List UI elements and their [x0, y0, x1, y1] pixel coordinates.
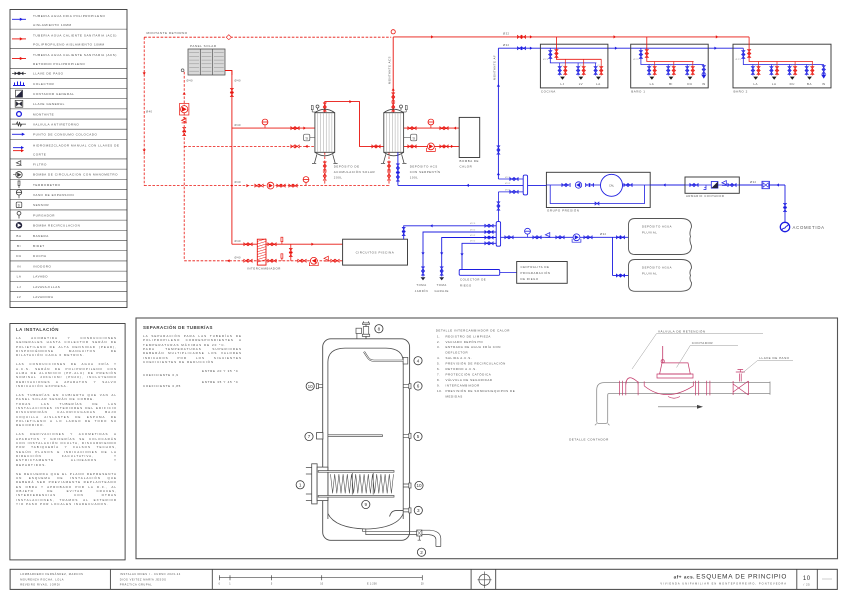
svg-text:ENTRADA DE AGUA FRÍA CON: ENTRADA DE AGUA FRÍA CON	[446, 345, 501, 349]
filter armario	[722, 181, 727, 186]
svg-text:9: 9	[365, 502, 368, 507]
purgador on tank top	[400, 105, 403, 108]
title bar divider	[470, 569, 472, 589]
svg-text:REVEIRO RIVAS, JORDI: REVEIRO RIVAS, JORDI	[20, 583, 60, 587]
svg-text:Ø40: Ø40	[235, 180, 242, 184]
arrow cold feed	[466, 184, 469, 187]
svg-text:S: S	[412, 136, 415, 141]
title bar divider	[816, 569, 818, 589]
filter pluvial run	[545, 233, 550, 238]
svg-text:GRUPO PRESIÓN: GRUPO PRESIÓN	[547, 208, 580, 213]
svg-text:CAL: CAL	[609, 184, 615, 188]
valves tank1 return	[291, 145, 299, 148]
svg-text:3.: 3.	[437, 345, 441, 349]
fixture hot drop LA BAÑO 2	[758, 62, 760, 76]
arrow up AF riser	[497, 84, 500, 87]
port entrada agua fria (3)	[0, 0, 1, 1]
svg-text:LOMBARDERO FERNÁNDEZ, MARCOS: LOMBARDERO FERNÁNDEZ, MARCOS	[20, 572, 83, 576]
tank: deposito agua pluvial 1	[629, 219, 692, 255]
callout 10	[306, 382, 314, 390]
legend row divider	[10, 118, 127, 120]
svg-text:LA: LA	[753, 82, 758, 86]
thermometer on tank top	[311, 106, 313, 110]
svg-text:BAÑO 2: BAÑO 2	[734, 89, 748, 94]
svg-text:4: 4	[417, 358, 420, 363]
valves tank1 bottom	[323, 162, 326, 170]
svg-text:Ø32: Ø32	[503, 32, 510, 36]
pipe: acometida drop	[784, 185, 786, 223]
svg-text:PREVISIÓN DE SONDAS/EQUIPOS DE: PREVISIÓN DE SONDAS/EQUIPOS DE	[446, 388, 516, 393]
valves grupo out	[624, 184, 632, 187]
pipe: acometida run	[739, 184, 785, 186]
svg-text:IN: IN	[702, 82, 706, 86]
svg-text:8.: 8.	[437, 378, 441, 382]
svg-text:ACOMETIDA: ACOMETIDA	[793, 225, 825, 230]
legend row divider	[10, 229, 127, 231]
valves lower collector line 4	[485, 242, 493, 245]
svg-text:PRÁCTICA GRUPAL: PRÁCTICA GRUPAL	[120, 583, 152, 587]
pipe: AF to toma jardin	[423, 232, 496, 277]
valves return in	[244, 259, 252, 262]
mixer outlet DU BAÑO 1	[688, 77, 693, 80]
port sondas right (10)	[0, 0, 1, 1]
valvula de retencion symbol	[0, 0, 1, 1]
pipe: tank1 top to tank2	[325, 102, 384, 147]
legend icon termometro	[18, 186, 20, 188]
drain hook armario	[704, 185, 707, 190]
box: grupo presion	[546, 172, 650, 207]
arrow down retorno riser 2	[143, 149, 146, 152]
svg-text:Ø32: Ø32	[470, 235, 476, 237]
svg-text:Ø12: Ø12	[597, 65, 602, 67]
svg-text:MONTANTE: MONTANTE	[33, 112, 54, 116]
coil group separator	[372, 473, 374, 495]
consumo toma jardin	[421, 277, 426, 280]
svg-text:E 1:200: E 1:200	[367, 583, 377, 586]
svg-text:LJ: LJ	[17, 285, 21, 289]
svg-text:3: 3	[417, 508, 420, 513]
tank: DEPÓSITO DE	[0, 0, 1, 1]
svg-text:DU: DU	[16, 254, 22, 258]
port retorno (6)	[0, 0, 1, 1]
svg-text:Ø25: Ø25	[633, 59, 639, 61]
svg-text:4.: 4.	[437, 356, 441, 360]
valves cold drop BAÑO 1	[639, 51, 642, 59]
valves armario out	[728, 184, 736, 187]
svg-text:DEFLECTOR: DEFLECTOR	[446, 351, 469, 355]
heat exchanger flange (1)	[0, 0, 1, 1]
svg-text:MONTANTE RETORNO: MONTANTE RETORNO	[147, 31, 188, 35]
svg-text:100L: 100L	[410, 176, 419, 180]
fixture cold drop LA BAÑO 1	[648, 65, 650, 76]
svg-text:DE RIEGO: DE RIEGO	[521, 277, 539, 281]
svg-text:Ø12: Ø12	[562, 65, 567, 67]
valves ACS top	[517, 35, 525, 38]
legend icon vaso de expansion	[18, 195, 20, 198]
legend box	[10, 10, 127, 308]
legend row divider	[10, 98, 127, 100]
svg-text:DEPÓSITO AGUA: DEPÓSITO AGUA	[642, 224, 672, 229]
legend row divider	[10, 260, 127, 262]
svg-text:7.: 7.	[437, 372, 441, 376]
callout 10	[415, 481, 423, 489]
title bar divider	[109, 569, 111, 589]
svg-text:DETALLE INTERCAMBIADOR DE CALO: DETALLE INTERCAMBIADOR DE CALOR	[436, 329, 511, 333]
legend row divider	[10, 108, 127, 110]
sheet number	[0, 0, 1, 1]
svg-text:ESQUEMA DE PRINCIPIO: ESQUEMA DE PRINCIPIO	[696, 574, 787, 581]
svg-text:LAVABO: LAVABO	[33, 275, 48, 279]
svg-text:CIRCUITOS PISCINA: CIRCUITOS PISCINA	[356, 251, 395, 255]
pipe: colector riego to centralita	[500, 271, 517, 273]
valves collector line3	[510, 190, 518, 193]
svg-text:LA: LA	[596, 82, 601, 86]
svg-text:6: 6	[417, 384, 420, 389]
box: armario contador	[685, 177, 739, 193]
valves lower collector line 2	[485, 231, 493, 234]
svg-text:TUBERIA AGUA CALIENTE SANITARI: TUBERIA AGUA CALIENTE SANITARIA (ACS)	[33, 53, 117, 57]
box: BAÑO 2	[733, 44, 831, 88]
valves hp top	[408, 127, 416, 130]
valves pluvial run	[505, 236, 513, 239]
svg-text:HIDROMEZCLADOR MANUAL CON LLAV: HIDROMEZCLADOR MANUAL CON LLAVES DE	[33, 144, 119, 148]
svg-text:COLECTOR: COLECTOR	[33, 82, 55, 86]
svg-text:LA: LA	[772, 82, 777, 86]
la instalacion text box	[16, 327, 117, 511]
pipe: tank2 bottom recirc drop	[388, 152, 390, 185]
legend icon colector	[13, 82, 25, 86]
box: centralita riego	[517, 262, 568, 284]
svg-text:FILTRO: FILTRO	[33, 162, 47, 166]
svg-text:ACUMULACIÓN SOLAR: ACUMULACIÓN SOLAR	[334, 169, 375, 174]
svg-text:Ø32: Ø32	[505, 183, 511, 185]
title bar frame	[10, 569, 837, 589]
svg-text:BANERA: BANERA	[33, 234, 49, 238]
tank: DEPÓSITO ACS	[0, 0, 1, 1]
sheet title	[0, 0, 1, 1]
valves grupo in	[562, 184, 570, 187]
arrow into tank1	[303, 127, 306, 130]
callout 9	[362, 500, 370, 508]
fixture cold drop LV COCINA	[577, 63, 579, 76]
svg-text:PUNTO DE CONSUMO COLOCADO: PUNTO DE CONSUMO COLOCADO	[33, 133, 98, 137]
valves tank pluvial 2	[616, 274, 624, 277]
separacion de tuberias text box	[143, 325, 242, 391]
pipe: tank1 return (dashed)	[184, 145, 315, 147]
svg-text:CONTADOR: CONTADOR	[692, 341, 714, 345]
pipe: cold drop into BAÑO 2	[743, 48, 823, 64]
svg-text:8: 8	[378, 326, 381, 331]
legend row divider	[10, 128, 127, 130]
svg-text:INTERCAMBIADOR: INTERCAMBIADOR	[247, 267, 281, 271]
legend icon bomba recirculacion	[16, 222, 22, 228]
svg-text:REGISTRO DE LIMPIEZA: REGISTRO DE LIMPIEZA	[446, 334, 491, 338]
svg-text:5: 5	[417, 434, 420, 439]
svg-text:Ø12: Ø12	[773, 65, 778, 67]
valves on solar supply drop	[230, 88, 233, 96]
svg-text:Ø40: Ø40	[235, 79, 242, 83]
pipe: AF to colector riego	[462, 243, 496, 269]
pipe: tank2 to bomba calor bottom	[404, 145, 459, 147]
callout 5	[414, 432, 422, 440]
svg-text:BA: BA	[807, 82, 812, 86]
svg-text:LA: LA	[17, 275, 22, 279]
svg-text:PANEL SOLAR: PANEL SOLAR	[190, 44, 217, 48]
svg-text:LV: LV	[17, 295, 22, 299]
valves toma garaje	[440, 267, 443, 275]
la instalacion box frame	[10, 324, 125, 560]
legend row divider	[10, 219, 127, 221]
svg-text:MONTANTE AF: MONTANTE AF	[492, 55, 496, 80]
valves intercambiador in	[244, 243, 252, 246]
valves recirc	[255, 184, 263, 187]
svg-text:Ø12: Ø12	[755, 65, 760, 67]
mixer outlet LA BAÑO 2	[772, 77, 777, 80]
svg-text:10: 10	[803, 576, 811, 582]
legend icon hidromezclador	[0, 0, 1, 1]
svg-text:JARDÍN: JARDÍN	[415, 289, 428, 293]
svg-text:VIVIENDA UNIFAMILIAR EN MONTEP: VIVIENDA UNIFAMILIAR EN MONTEPORREIRO, P…	[660, 581, 787, 585]
svg-text:CORTE: CORTE	[33, 153, 46, 157]
valve bypass grupo	[595, 202, 599, 205]
fixture cold drop LJ COCINA	[559, 63, 561, 76]
callout 4	[414, 357, 422, 365]
svg-text:DEPÓSITO DE: DEPÓSITO DE	[334, 164, 360, 169]
valves ACS riser	[392, 93, 395, 101]
title bar divider	[796, 569, 798, 589]
fixture cold drop DU BAÑO 2	[789, 65, 791, 76]
svg-text:LLAVE DE PASO: LLAVE DE PASO	[33, 72, 64, 76]
svg-text:CONTADOR GENERAL: CONTADOR GENERAL	[33, 92, 74, 96]
valves recirc 3	[289, 184, 297, 187]
heat exchanger coil (9)	[0, 0, 1, 1]
pipe: solar primary to intercambiador	[232, 243, 343, 245]
pump grupo presion	[575, 182, 581, 188]
svg-text:TOMA: TOMA	[416, 283, 426, 287]
port sondas left (10)	[0, 0, 1, 1]
legend icon hot pipe	[12, 58, 26, 60]
safety valve assembly (8)	[0, 0, 1, 1]
legend icon bomba circulacion	[16, 172, 22, 178]
legend row divider	[10, 301, 127, 303]
fixture hot drop LA BAÑO 2	[776, 62, 778, 76]
pipe: solar supply to tank1	[232, 127, 315, 129]
legend row divider	[10, 158, 127, 160]
contador general symbol	[711, 182, 718, 189]
svg-text:LA: LA	[650, 82, 655, 86]
svg-text:1.: 1.	[437, 334, 441, 338]
svg-text:CENTRALITA DE: CENTRALITA DE	[521, 265, 550, 269]
svg-text:IN: IN	[822, 82, 826, 86]
box: circuitos piscina	[343, 239, 408, 265]
coil group separator	[351, 473, 353, 495]
svg-text:Ø32: Ø32	[750, 180, 757, 184]
svg-text:Ø12: Ø12	[689, 65, 694, 67]
svg-text:VÁLVULA DE RETENCIÓN: VÁLVULA DE RETENCIÓN	[658, 328, 706, 333]
svg-text:GARAJE: GARAJE	[434, 289, 449, 293]
svg-text:TUBERIA AGUA FRIA POLIPROPILEN: TUBERIA AGUA FRIA POLIPROPILENO	[33, 14, 105, 18]
mixer outlet LJ COCINA	[560, 77, 565, 80]
valve on solar return riser	[183, 127, 186, 135]
valves piscina feed	[402, 227, 405, 235]
legend row divider	[10, 270, 127, 272]
fixture hot drop DU BAÑO 1	[692, 62, 694, 76]
pipe: cold feed to tank2 from collector	[398, 184, 524, 186]
legend icon valvula antiretorno	[12, 123, 26, 125]
pump B3 piscina return	[310, 257, 317, 264]
svg-text:TERMOMETRO: TERMOMETRO	[33, 183, 61, 187]
legend icon contador general	[16, 90, 23, 97]
svg-text:VALVULA ANTIRETORNO: VALVULA ANTIRETORNO	[33, 122, 79, 126]
node diamond on retorno line	[226, 35, 231, 40]
drain valve cross	[417, 530, 422, 536]
pipe: grupo presion to collector	[528, 184, 547, 186]
pipe: inter-collector link	[497, 192, 499, 222]
pipe: solar return riser (dashed)	[183, 72, 185, 260]
valves recirc 2	[277, 184, 285, 187]
svg-text:CALOR: CALOR	[460, 165, 473, 169]
mixer outlet DU BAÑO 2	[790, 77, 795, 80]
svg-text:PURGADOR: PURGADOR	[33, 213, 55, 217]
boiler outer shell	[323, 339, 410, 541]
filter piscina return	[324, 256, 329, 261]
legend icon llave de paso	[12, 72, 26, 74]
svg-text:Ø40: Ø40	[187, 79, 194, 83]
legend row divider	[10, 280, 127, 282]
box: BAÑO 1	[631, 44, 709, 88]
intercambiador hatched block	[0, 0, 1, 1]
fixture hot drop BI BAÑO 1	[673, 62, 675, 76]
svg-text:Ø25: Ø25	[543, 59, 549, 61]
fixture cold drop LA BAÑO 2	[770, 65, 772, 76]
mixer outlet LA BAÑO 1	[650, 77, 655, 80]
arrow toma jardin	[421, 252, 424, 255]
svg-text:LV: LV	[579, 82, 583, 86]
pipe: montante retorno (dashed) top	[144, 36, 391, 38]
vaso hp line	[430, 125, 432, 128]
valves hot drop COCINA	[555, 50, 558, 58]
valves tank pluvial 1	[616, 236, 624, 239]
llave de paso symbol detail	[0, 0, 1, 1]
svg-text:PLUVIAL: PLUVIAL	[642, 271, 657, 275]
svg-text:VACIADO DEPÓSITO: VACIADO DEPÓSITO	[446, 339, 484, 344]
colector de riego bar	[459, 270, 500, 276]
svg-text:DETALLE CONTADOR: DETALLE CONTADOR	[569, 438, 609, 442]
svg-text:LAVADORA: LAVADORA	[33, 295, 54, 299]
svg-text:Ø25: Ø25	[470, 223, 476, 225]
svg-text:Ø32: Ø32	[503, 43, 510, 47]
svg-text:ARMARIO CONTADOR: ARMARIO CONTADOR	[686, 194, 724, 198]
thermometer return	[281, 258, 283, 260]
pipe: cold drop into COCINA	[550, 48, 596, 63]
legend icon filtro	[16, 161, 21, 166]
svg-text:10: 10	[416, 483, 422, 488]
pipe: AF to toma garaje	[442, 238, 497, 277]
pipe: montante AF riser	[497, 48, 499, 179]
svg-text:DEPÓSITO ACS: DEPÓSITO ACS	[410, 164, 438, 169]
legend row divider	[10, 77, 127, 79]
svg-text:10: 10	[308, 384, 314, 389]
pump pluvial	[573, 234, 580, 241]
authors block	[0, 0, 1, 1]
legend row divider	[10, 291, 127, 293]
callout 2	[417, 548, 425, 556]
svg-text:Ø40: Ø40	[235, 123, 242, 127]
fixture cold drop IN BAÑO 2	[823, 65, 825, 75]
panel vent circle	[181, 69, 184, 72]
svg-text:Ø40: Ø40	[235, 256, 242, 260]
sensor S tank1	[304, 134, 310, 141]
pipe: collector to riser	[498, 178, 523, 180]
fixture cold drop BA BAÑO 2	[806, 65, 808, 76]
label valvula de retencion	[0, 0, 1, 1]
svg-text:RETORNO A.C.S.: RETORNO A.C.S.	[446, 367, 477, 371]
svg-text:IN: IN	[17, 264, 21, 268]
fixture cold drop IN BAÑO 1	[703, 65, 705, 75]
junction node	[231, 185, 233, 187]
legend row divider	[10, 138, 127, 140]
valves armario in	[690, 184, 698, 187]
svg-text:LLAVE GENERAL: LLAVE GENERAL	[33, 102, 65, 106]
valves tank2 bottom red	[388, 162, 391, 170]
svg-text:Ø32: Ø32	[470, 229, 476, 231]
svg-text:Ø32: Ø32	[600, 232, 607, 236]
arrow to grupo	[663, 183, 666, 186]
legend row divider	[10, 178, 127, 180]
arrow toma garaje	[440, 252, 443, 255]
fixture cold drop LA COCINA	[595, 63, 597, 76]
course block	[0, 0, 1, 1]
svg-text:1: 1	[299, 482, 302, 487]
valves link	[497, 202, 500, 210]
arrow up solar return	[183, 92, 186, 95]
legend icon punto de consumo	[12, 133, 23, 135]
svg-text:5.: 5.	[437, 362, 441, 366]
svg-text:LLAVE DE PASO: LLAVE DE PASO	[759, 356, 789, 360]
svg-text:10.: 10.	[437, 389, 443, 393]
valves hot drop BAÑO 1	[645, 50, 648, 58]
svg-text:Ø12: Ø12	[670, 65, 675, 67]
svg-text:BIDET: BIDET	[33, 244, 45, 248]
svg-text:PREVISIÓN DE RECIRCULACIÓN: PREVISIÓN DE RECIRCULACIÓN	[446, 361, 506, 366]
svg-text:BAÑO 1: BAÑO 1	[631, 89, 645, 94]
legend row divider	[10, 88, 127, 90]
svg-text:2.: 2.	[437, 340, 441, 344]
sensor S tank2	[411, 134, 417, 141]
svg-text:BOMBA DE: BOMBA DE	[460, 159, 480, 163]
valves tank2 inlet	[372, 145, 380, 148]
callout 1	[296, 481, 304, 489]
svg-text:SENSOR: SENSOR	[33, 203, 49, 207]
legend row divider	[10, 199, 127, 201]
svg-text:Ø12: Ø12	[580, 65, 585, 67]
fixture cold drop BI BAÑO 1	[667, 65, 669, 76]
svg-text:POLIPROPILENO AISLAMIENTO 10MM: POLIPROPILENO AISLAMIENTO 10MM	[33, 42, 105, 46]
acometida symbol	[780, 222, 789, 231]
pump B2 recirculacion	[267, 182, 274, 189]
fixture hot drop LA BAÑO 1	[654, 62, 656, 76]
valves AF riser	[497, 146, 500, 154]
drain pipe (2)	[0, 0, 1, 1]
pipe: tank1 bottom recirc drop	[324, 152, 326, 185]
valves intercambiador out	[268, 243, 276, 246]
pipe: AF distribution top	[498, 47, 743, 49]
pipe: ACS recirculation line	[144, 185, 389, 187]
arrow tank1 return	[305, 145, 308, 148]
consumo toma garaje	[439, 277, 444, 280]
pipe: AF to circuitos piscina	[404, 226, 497, 239]
montante symbol circle	[391, 30, 395, 34]
